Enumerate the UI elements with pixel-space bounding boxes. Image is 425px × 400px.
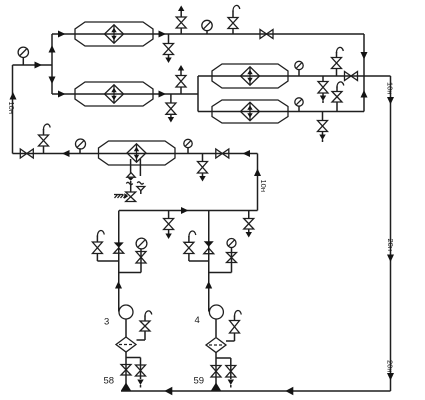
filter F3	[116, 337, 136, 352]
gauge PI1	[18, 47, 28, 65]
flow arrow up suction 58	[121, 383, 131, 391]
wire HX1 line y34	[52, 33, 364, 35]
wire feed header y65	[13, 64, 53, 66]
flow arrow left return a	[62, 150, 70, 157]
heat exchanger E5	[212, 100, 288, 123]
valve gate H4 on A outlet line	[345, 72, 358, 81]
wire return riser x257	[257, 154, 259, 211]
wire pump3 outlet	[125, 319, 127, 337]
valve drain V22 below B line	[318, 112, 328, 143]
heat exchanger E4	[212, 64, 288, 88]
flow arrow down trunk c	[387, 373, 394, 381]
valve drain V19 below manifold	[244, 211, 254, 238]
valve vent V23 above B line with hook	[332, 82, 344, 112]
gauge PI7	[136, 238, 147, 249]
flow arrow right E1 outlet	[159, 31, 167, 38]
valve vent V16 pump4 discharge with hook	[230, 311, 242, 333]
svg-text:10н: 10н	[386, 82, 395, 94]
valve vent V7 pump3 suction with hook	[92, 231, 104, 254]
valve gate H3 on E1 outlet line	[260, 30, 273, 39]
flow arrow left bottom b	[285, 387, 293, 395]
heat exchanger E2	[75, 82, 153, 106]
wire pump4 riser	[208, 211, 210, 312]
valve vent V10 pump3 discharge with hook	[140, 311, 152, 331]
valve check V14 pump4 riser top-filled	[204, 241, 214, 253]
gauge PI6	[295, 98, 303, 112]
flow arrow up x52	[49, 45, 56, 53]
wire filter3 drain branch	[126, 358, 141, 380]
wire pump3 gauge jog	[119, 249, 141, 273]
wire pump4 gauge jog	[209, 248, 232, 273]
flow arrow right E2 outlet	[159, 91, 167, 98]
flow arrow down trunk b	[387, 255, 394, 263]
wire bottom suction header y391	[121, 390, 391, 392]
E3 bottom drain right line	[139, 159, 141, 176]
wire AB split x198	[197, 76, 199, 112]
pump P4	[209, 305, 223, 319]
valve drain V3 below E2 line	[166, 94, 176, 123]
svg-text:58: 58	[104, 376, 115, 387]
pump P3	[119, 305, 133, 319]
valve vent V21 above A line with hook	[332, 47, 344, 76]
flow arrow left return b	[243, 150, 251, 157]
flow arrow right E1 inlet	[58, 31, 66, 38]
wire right collector x364	[363, 34, 365, 112]
wire HX3 return line y154	[13, 153, 258, 155]
flow arrow right y65	[35, 62, 43, 69]
flow arrow up x364	[361, 90, 368, 98]
valve drain V1 below E1 line	[164, 34, 174, 63]
wire split header x52	[51, 34, 53, 94]
valve V9 pump3 gauge isolation	[136, 252, 146, 264]
wire pump manifold y210	[119, 210, 258, 212]
flow arrow left bottom a	[164, 387, 172, 395]
flow arrow up left riser	[10, 92, 17, 100]
valve drain V20 below A line	[318, 76, 328, 103]
wire left riser x13	[12, 65, 14, 154]
drain hatch marker	[114, 193, 128, 199]
E3 drain stem	[130, 181, 132, 192]
valve gate H2 on return line	[216, 149, 229, 158]
break squiggle left	[126, 182, 132, 184]
svg-text:10н: 10н	[259, 180, 268, 192]
flow arrow down trunk a	[387, 97, 394, 105]
funnel drain	[137, 187, 145, 195]
svg-text:10н: 10н	[7, 102, 16, 114]
heat exchanger E3	[99, 141, 176, 165]
flow arrow right manifold	[181, 207, 189, 214]
svg-text:20н: 20н	[386, 239, 395, 251]
svg-text:20н: 20н	[386, 360, 395, 372]
gauge PI2	[202, 20, 212, 34]
relief symbol under E3	[127, 173, 135, 181]
wire pump4 outlet	[215, 319, 217, 337]
filter F4	[206, 338, 226, 353]
wire capsule A line y76	[198, 75, 391, 77]
valve drain V19a below manifold left	[164, 211, 174, 240]
heat exchanger E1	[75, 22, 153, 46]
break squiggle right	[137, 182, 143, 184]
valve V18 drain 59 right	[226, 366, 236, 388]
flow arrow up pump3 riser	[115, 281, 122, 289]
svg-text:4: 4	[195, 315, 200, 326]
E3 bottom drain left line	[130, 159, 132, 173]
gauge PI5	[295, 61, 303, 76]
wire capsule B line y111.5	[198, 111, 364, 113]
wire pump4 vent2 connect	[226, 333, 235, 341]
flow arrow up suction 59	[211, 383, 221, 391]
gauge PI8	[227, 239, 236, 248]
valve V17 drain 59 left	[211, 366, 221, 378]
wire pump3 vent2 connect	[137, 331, 146, 340]
valve V12 drain 58 right	[136, 365, 146, 388]
valve gate H1 on return line	[20, 149, 33, 158]
valve vent V2 above E1 line	[176, 6, 186, 35]
wire filter3 drain left	[125, 352, 127, 392]
svg-text:59: 59	[194, 376, 205, 387]
wire filter4 drain left	[215, 353, 217, 392]
wire filter4 drain branch	[216, 358, 231, 379]
wire HX2 line y94	[52, 93, 198, 95]
valve V15 pump4 gauge isolation	[227, 253, 237, 263]
flow arrow up return riser	[254, 169, 261, 177]
flow arrow right E2 inlet	[58, 91, 66, 98]
wire main trunk x390	[390, 76, 392, 391]
wire pump3 riser	[118, 211, 120, 312]
valve V11 drain 58 left	[121, 365, 131, 376]
valve V24 E3 drain	[126, 192, 136, 202]
flow arrow down x52	[49, 77, 56, 85]
valve check V8 pump3 riser top-filled	[114, 242, 124, 253]
flow arrow down x364	[361, 52, 368, 60]
gauge PI4	[184, 139, 192, 153]
valve vent V4 above E2 line	[176, 65, 186, 94]
gauge PI3	[76, 139, 86, 154]
valve sample V5 with hook on return line	[39, 124, 51, 153]
valve drain V6 below E3 line	[198, 154, 208, 182]
flow arrow up pump4 riser	[205, 281, 212, 289]
valve vent V13 pump4 suction with hook	[184, 231, 196, 253]
wire pump3 vent connect	[97, 254, 118, 262]
wire pump4 vent connect	[189, 254, 209, 262]
valve vent V2b with hook on E1 line	[228, 5, 240, 34]
svg-text:3: 3	[104, 317, 109, 328]
